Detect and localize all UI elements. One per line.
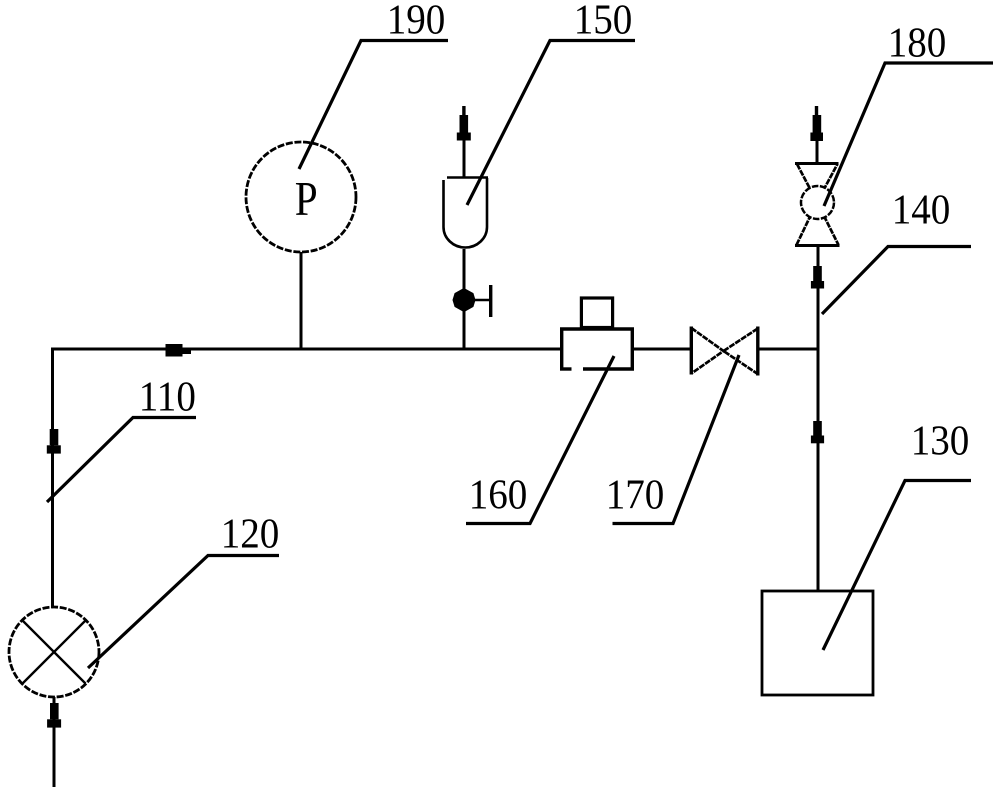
hand valve on sampler stem [453,285,491,317]
tank 130 box [762,591,873,695]
leader 160 [466,356,614,524]
svg-text:170: 170 [606,471,665,518]
wire left vertical line 110 [51,348,54,609]
sampler flask 150 [444,178,489,248]
svg-text:120: 120 [221,510,280,557]
flow arrow right on main line [166,344,192,357]
flow arrow up on pump inlet [47,703,61,728]
component 160 top box [581,298,612,328]
wire gauge stem [300,252,303,349]
flow arrow up on left vertical line [47,429,61,454]
leader 110 [47,418,196,503]
leader 180 [824,63,993,206]
pressure gauge 190 [246,142,356,252]
leader 140 [822,247,971,315]
leader 190 [299,41,448,170]
wire pump inlet below pump [53,697,56,787]
wire main horizontal line right segment [758,348,819,351]
svg-text:130: 130 [911,417,970,464]
wire main horizontal line middle segment [634,348,691,351]
svg-text:190: 190 [387,0,446,43]
wire pipe from main line down to tank 130 [817,349,820,591]
flow arrow up on pipe 140 [811,266,824,289]
svg-text:110: 110 [139,373,196,420]
svg-text:150: 150 [574,0,633,43]
wire stem above relief valve 180 [816,140,819,165]
valve 170 bowtie [691,327,758,376]
svg-text:P: P [295,172,318,226]
svg-text:160: 160 [469,471,528,518]
leader 150 [467,41,635,206]
component 160 body box [560,329,632,369]
vent arrow above sampler 150 [457,106,471,141]
leader 120 [88,556,279,669]
svg-text:180: 180 [888,19,947,66]
svg-text:140: 140 [892,186,951,233]
wire main horizontal line left segment [52,348,562,351]
wire stem below sampler 150 [463,249,466,349]
vent arrow above relief valve 180 [810,106,823,141]
flow arrow up on tank pipe [811,421,824,443]
leader 130 [823,481,971,651]
pump 120 circle with cross [9,607,99,697]
wire pipe 140 between relief valve and main line [817,246,820,349]
wire stem above sampler 150 [463,139,466,177]
leader 170 [613,355,740,524]
relief valve 180 [795,164,840,246]
